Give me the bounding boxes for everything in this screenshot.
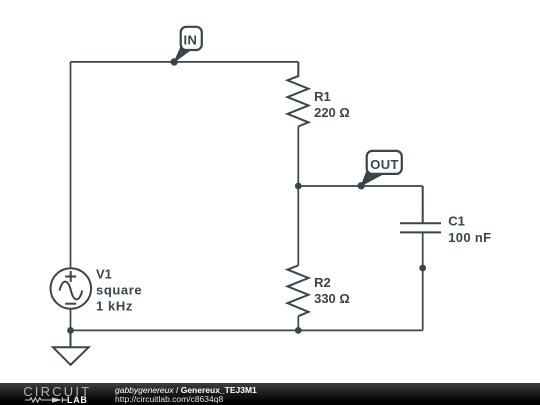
label R1 value [314, 89, 350, 120]
node flag IN [174, 27, 202, 62]
junction dot at R2 bottom [295, 327, 302, 334]
voltage source V1 [51, 268, 92, 309]
svg-text:1 kHz: 1 kHz [96, 298, 133, 313]
resistor R2 [288, 265, 309, 316]
junction dot on C1 branch [419, 265, 426, 272]
svg-text:LAB: LAB [67, 395, 88, 405]
svg-text:OUT: OUT [370, 157, 399, 172]
resistor R1 [288, 62, 309, 127]
footer bar [0, 383, 540, 405]
wire: bottom net from V1 to C1 [71, 329, 423, 331]
label C1 value [448, 214, 491, 245]
CircuitLab logo [0, 383, 110, 405]
svg-text:100 nF: 100 nF [448, 230, 491, 245]
capacitor C1 [400, 186, 441, 232]
svg-text:R2: R2 [314, 275, 331, 290]
svg-text:IN: IN [184, 32, 198, 47]
node flag OUT [361, 151, 402, 186]
svg-text:C1: C1 [448, 214, 465, 229]
svg-text:square: square [96, 282, 142, 297]
svg-text:330 Ω: 330 Ω [314, 291, 350, 306]
node IN anchor dot [171, 58, 178, 65]
wire: top net from V1 to R1 [71, 61, 299, 63]
junction dot at V1/ground [67, 327, 74, 334]
svg-text:R1: R1 [314, 89, 331, 104]
label V1 value [96, 266, 142, 313]
wire: R2 bottom lead to bottom net [297, 316, 299, 330]
label R2 value [314, 275, 350, 306]
svg-text:V1: V1 [96, 266, 112, 281]
wire: V1 bottom terminal to bottom net [70, 309, 72, 331]
wire: R1 bottom lead down to OUT node [297, 127, 299, 187]
wire: left vertical from top net down to V1 top terminal [70, 62, 72, 268]
wire: C1 junction down to bottom net [422, 268, 424, 330]
junction dot at OUT node (R1/R2) [295, 183, 302, 190]
wire: OUT net horizontal from R2 top to C1 [298, 185, 422, 187]
node OUT anchor dot [358, 182, 365, 189]
footer credit text [115, 386, 257, 404]
ground [53, 330, 89, 365]
wire: C1 bottom lead to junction [422, 232, 424, 268]
wire: OUT node down to R2 zigzag [297, 186, 299, 265]
svg-text:220 Ω: 220 Ω [314, 105, 350, 120]
